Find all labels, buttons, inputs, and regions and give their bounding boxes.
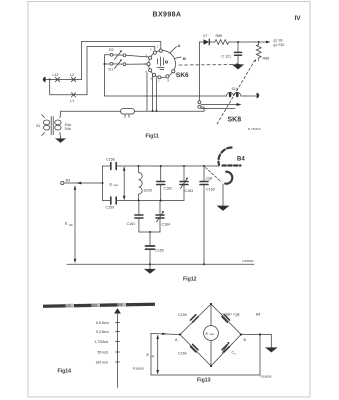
svg-text:C161: C161 (127, 222, 136, 226)
wire right rail (241, 334, 271, 336)
ground fig13 (266, 335, 277, 353)
terminal B3 (61, 179, 103, 185)
node A (179, 333, 181, 335)
wire mid rail (103, 200, 111, 202)
wire D1 left (105, 63, 111, 65)
svg-text:X7: X7 (203, 34, 207, 38)
svg-text:B4: B4 (237, 157, 245, 163)
svg-text:D2: D2 (109, 48, 114, 52)
connector plug (257, 93, 260, 98)
wire antenna line (46, 79, 82, 81)
inductor S14 (227, 87, 241, 97)
coil L2 (70, 73, 76, 82)
svg-text:R15828: R15828 (261, 375, 272, 379)
wire diode to resistor (209, 41, 215, 43)
capacitor C158 (106, 158, 116, 170)
svg-text:C160: C160 (178, 352, 187, 356)
frequency marks (95, 321, 120, 365)
resistor R88 (256, 42, 269, 61)
wire lower left branch (50, 80, 87, 95)
svg-text:E: E (110, 182, 113, 187)
measure arrow E HF (65, 185, 76, 263)
node B (240, 333, 242, 335)
svg-text:S105: S105 (144, 189, 152, 193)
svg-text:470: 470 (66, 304, 72, 308)
fuse Z2 (121, 108, 135, 117)
svg-text:R88: R88 (263, 57, 270, 61)
wire mains line right (135, 107, 205, 111)
wire bottom rail (67, 263, 254, 265)
switch contact lower (198, 105, 235, 108)
diode X7 (203, 34, 209, 45)
tube socket SK6 (144, 45, 178, 84)
wire mains line (61, 110, 121, 112)
svg-text:Cgk: Cgk (206, 177, 212, 181)
node mains junctions (152, 110, 154, 112)
wire D2 to socket (126, 55, 149, 57)
svg-text:160 kc/s: 160 kc/s (96, 361, 109, 365)
svg-text:E: E (147, 352, 150, 357)
wire D1 to socket (126, 63, 149, 65)
svg-text:R86: R86 (216, 34, 223, 38)
capacitance Cgk dashed (206, 168, 222, 182)
resistor R86 (215, 34, 229, 44)
coil L1 (70, 93, 76, 103)
wire S14 to plug (241, 95, 256, 97)
winding S1 (36, 115, 50, 136)
svg-text:HF: HF (69, 223, 73, 227)
svg-text:550: 550 (118, 303, 124, 307)
pointer line (117, 314, 119, 388)
svg-text:S1: S1 (36, 124, 40, 128)
capacitor C162 (157, 166, 172, 201)
wire bottom rail fig13 (151, 374, 260, 376)
node bottom rail junction (149, 263, 151, 265)
wire output g1 (229, 41, 266, 43)
aerial terminal (43, 77, 46, 82)
svg-text:L2: L2 (70, 73, 74, 77)
svg-text:C159: C159 (106, 206, 115, 210)
tube internal electrodes (157, 57, 164, 70)
bridge arms (180, 304, 211, 335)
wire inner top loop (87, 47, 155, 95)
svg-text:Fig13: Fig13 (197, 378, 211, 384)
trimmer C163 (180, 166, 193, 201)
svg-text:B4: B4 (256, 313, 260, 317)
svg-text:R15830: R15830 (133, 367, 144, 371)
svg-text:IV: IV (295, 15, 302, 22)
svg-text:C 121: C 121 (222, 55, 232, 59)
svg-text:500: 500 (92, 304, 98, 308)
wire outer top loop (82, 42, 161, 80)
capacitor C159 bridge (178, 313, 198, 322)
wire cathode to ground (222, 184, 224, 206)
wire rectifier feed (199, 42, 203, 101)
svg-text:C158: C158 (106, 158, 115, 162)
node D1 junction (104, 63, 106, 65)
node B3 junction (102, 182, 104, 184)
svg-text:E: E (206, 331, 209, 336)
svg-text:S4b: S4b (65, 127, 71, 131)
wiper arrow R88 (254, 59, 256, 62)
svg-text:g1 S10: g1 S10 (274, 43, 285, 47)
lead A (170, 43, 181, 53)
svg-text:g1 S9: g1 S9 (274, 39, 283, 43)
capacitor C165 (146, 232, 164, 264)
wire left vertical (150, 334, 152, 376)
wire right vertical (259, 335, 261, 376)
dashed coupling SK8 (217, 61, 255, 124)
dial scale band (43, 303, 155, 308)
winding S4a S4b (55, 111, 71, 137)
svg-text:L12: L12 (53, 73, 59, 77)
svg-text:osc: osc (114, 183, 119, 187)
svg-text:C164: C164 (162, 223, 171, 227)
svg-text:Fig14: Fig14 (58, 369, 72, 375)
wire socket drops (146, 73, 148, 111)
ground transformer (56, 137, 65, 143)
svg-text:SK8: SK8 (228, 117, 242, 124)
wire left loop vertical (102, 166, 104, 201)
trimmer C164 (156, 201, 170, 233)
svg-text:HF: HF (151, 355, 155, 359)
measure arrow E HF fig13 (147, 335, 160, 375)
svg-text:55 kc/s: 55 kc/s (98, 351, 109, 355)
svg-text:B: B (183, 56, 186, 61)
generator E osc (204, 304, 219, 366)
svg-text:D1: D1 (109, 68, 114, 72)
node top (210, 303, 212, 305)
wire left rail (151, 334, 180, 335)
lead B (174, 56, 186, 61)
node antenna junction (49, 79, 51, 81)
svg-text:C165: C165 (155, 249, 164, 253)
svg-text:Fig11: Fig11 (146, 134, 159, 140)
svg-text:R 15 824: R 15 824 (248, 127, 261, 131)
wire D2 left drop (105, 55, 111, 96)
svg-text:C162: C162 (164, 187, 173, 191)
coil L12 (53, 73, 60, 82)
trimmer Cv bridge (222, 342, 236, 356)
measure arrow E osc (110, 166, 126, 200)
svg-text:osc: osc (210, 332, 215, 336)
capacitor C168+Cgk bridge (222, 313, 261, 323)
trimmer D2 (109, 48, 126, 60)
capacitor C159 (106, 197, 117, 210)
transformer core (51, 117, 53, 135)
svg-text:R15829: R15829 (243, 259, 254, 263)
tube B4 partial (218, 148, 240, 184)
capacitor C121 (222, 42, 242, 65)
svg-text:E: E (65, 221, 68, 226)
svg-text:BX998A: BX998A (153, 12, 182, 19)
svg-text:6,8 Mc/s: 6,8 Mc/s (96, 321, 109, 325)
capacitor C161 (127, 201, 143, 233)
ground fig12 (145, 264, 155, 273)
ground cathode (218, 206, 229, 210)
trimmer D1 (109, 59, 126, 71)
svg-text:B3: B3 (66, 179, 71, 183)
svg-text:Fig12: Fig12 (183, 277, 197, 283)
svg-text:A: A (178, 43, 181, 48)
svg-text:1,72Mc/s: 1,72Mc/s (95, 340, 109, 344)
switch contact upper (198, 101, 242, 106)
svg-text:C168+ Cgk: C168+ Cgk (222, 313, 240, 317)
svg-text:C163: C163 (185, 189, 194, 193)
svg-text:C169: C169 (206, 188, 215, 192)
dashed coupling SK6 (179, 63, 241, 66)
svg-text:5,3 Mc/s: 5,3 Mc/s (96, 330, 109, 334)
pointer arrow (114, 308, 121, 313)
svg-text:SK6: SK6 (176, 72, 189, 79)
wire top rail (103, 165, 111, 167)
ground C121 (233, 65, 243, 69)
svg-text:L1: L1 (70, 99, 74, 103)
inductor S105 (139, 166, 152, 201)
capacitor C169 (200, 166, 215, 264)
svg-text:C159: C159 (178, 313, 187, 317)
wire S14 line (105, 95, 227, 97)
wire C161 C164 join (139, 231, 160, 233)
node bottom (210, 365, 212, 367)
capacitor C160 bridge (178, 344, 198, 355)
